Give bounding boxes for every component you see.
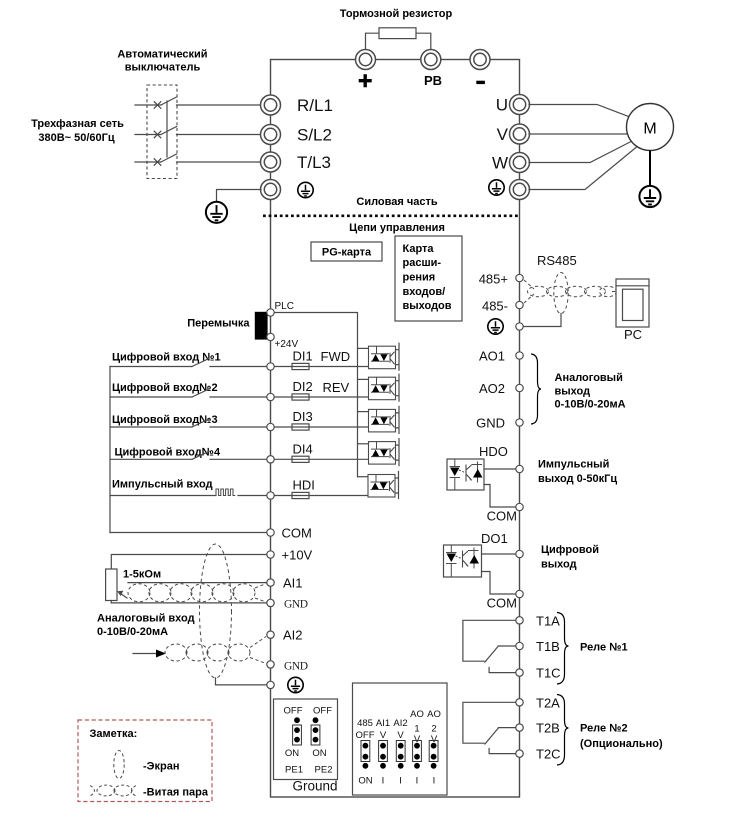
svg-text:PE1: PE1 (285, 765, 303, 776)
svg-text:-Экран: -Экран (143, 761, 179, 773)
DI2 switch wire (110, 396, 266, 398)
opto bus stub 2 (358, 378, 369, 380)
phase wire T (135, 161, 161, 163)
svg-text:W: W (492, 154, 508, 173)
terminal HDI (267, 492, 274, 499)
svg-text:485+: 485+ (479, 272, 508, 287)
opto5 output bracket (395, 472, 399, 499)
opto bus stub 5 (358, 476, 369, 478)
wire DO1 opto to COM (482, 572, 516, 595)
svg-text:OFF: OFF (284, 706, 303, 717)
shield ellipse RS485 (554, 273, 568, 314)
terminal DI2 (267, 393, 274, 400)
svg-text:485-: 485- (482, 299, 508, 314)
wire DI1 to opto1 (275, 366, 369, 368)
brace AO (531, 354, 541, 424)
terminal U (510, 95, 530, 115)
shield drain wire (216, 678, 267, 685)
terminal PB (421, 50, 441, 70)
svg-text:-Витая пара: -Витая пара (143, 787, 209, 799)
note legend box (78, 720, 212, 802)
twisted pair AI2 (165, 637, 266, 664)
svg-text:Тормозной резистор: Тормозной резистор (340, 8, 453, 20)
svg-text:COM: COM (487, 596, 517, 611)
svg-text:PB: PB (424, 73, 442, 88)
relay2 blade (485, 728, 499, 744)
svg-text:DO1: DO1 (481, 531, 508, 546)
opto bus stub 4 (358, 443, 369, 445)
optocoupler HDO (447, 459, 484, 490)
dotted separator (263, 214, 519, 217)
svg-text:PLC: PLC (275, 301, 294, 312)
PE symbol inside box right (489, 180, 504, 195)
svg-text:I: I (416, 776, 419, 787)
svg-text:M: M (643, 121, 656, 138)
terminal AO1 (516, 352, 523, 359)
svg-text:REV: REV (323, 380, 350, 395)
wire potentiometer bottom to GND (110, 601, 112, 603)
svg-text:485: 485 (357, 718, 373, 729)
svg-text:I: I (382, 776, 385, 787)
relay2 common wire (498, 727, 515, 729)
svg-text:Карта: Карта (403, 243, 435, 255)
resistor brake (379, 28, 416, 39)
svg-text:Силовая часть: Силовая часть (356, 196, 437, 208)
svg-text:U: U (496, 96, 508, 115)
wire PLC to opto bus (275, 313, 358, 477)
wire HDO opto to COM (484, 485, 515, 508)
HDI wire with pulse train (110, 495, 266, 497)
optocoupler DI4 (369, 442, 396, 465)
wire V to motor (529, 133, 627, 135)
DI1 switch blade (192, 359, 209, 367)
resistor HDI (292, 492, 309, 498)
breaker contact x R (154, 102, 161, 109)
svg-text:T1C: T1C (536, 666, 561, 681)
PE symbol 485 (488, 319, 503, 334)
svg-text:рения: рения (403, 272, 436, 284)
terminal DI4 (267, 456, 274, 463)
dip switch 485 (361, 741, 370, 769)
svg-text:AI1: AI1 (283, 576, 303, 591)
dip switch AO2 (429, 741, 438, 769)
resistor DI2 (292, 394, 309, 400)
PE symbol control (288, 677, 303, 692)
terminal PE control (267, 681, 274, 688)
wire DI4 to opto4 (275, 458, 369, 460)
breaker blade R (161, 97, 177, 105)
svg-text:HDI: HDI (293, 478, 315, 493)
svg-text:DI2: DI2 (293, 379, 313, 394)
svg-text:ON: ON (358, 776, 372, 787)
motor M (627, 104, 674, 151)
relay1 NO path (463, 620, 515, 661)
svg-text:Цифровой вход №1: Цифровой вход №1 (112, 352, 221, 364)
svg-text:T2A: T2A (536, 696, 560, 711)
svg-text:PC: PC (624, 327, 642, 342)
wire DI2 to opto2 (275, 396, 369, 398)
terminal +10V (267, 551, 274, 558)
opto1 output bracket (396, 343, 400, 370)
ground dip box (274, 699, 338, 780)
optocoupler HDI (368, 475, 395, 498)
svg-text:AO: AO (427, 709, 441, 720)
brace relay1 (557, 613, 569, 685)
DI2 switch blade (192, 389, 209, 397)
svg-text:V: V (380, 730, 387, 741)
twisted pair RS485 (524, 280, 617, 303)
jumper black bar (255, 312, 268, 340)
svg-text:ON: ON (312, 748, 326, 759)
svg-text:Трехфазная сеть: Трехфазная сеть (31, 118, 124, 130)
svg-text:выход: выход (555, 386, 591, 398)
terminal T1A (516, 617, 523, 624)
wire DI3 to opto3 (275, 426, 369, 428)
svg-text:AO1: AO1 (479, 349, 505, 364)
breaker contact x S (154, 131, 161, 138)
terminal COM do1 (516, 590, 523, 597)
relay1 common wire (498, 645, 515, 647)
opto4 output bracket (396, 439, 400, 466)
dip switch AO1 (413, 741, 422, 769)
breaker blade T (161, 154, 177, 162)
svg-text:Перемычка: Перемычка (187, 318, 250, 330)
terminal S/L2 (261, 125, 281, 145)
DI3 switch wire (110, 426, 266, 428)
svg-text:Цепи управления: Цепи управления (349, 222, 445, 234)
ground electrode left (206, 202, 227, 223)
svg-text:S/L2: S/L2 (297, 126, 332, 145)
phase wire S (135, 134, 161, 136)
terminal DI1 (267, 363, 274, 370)
terminal DO1 (516, 550, 523, 557)
svg-text:1-5кОм: 1-5кОм (123, 569, 161, 581)
svg-text:Цифровой вход№3: Цифровой вход№3 (112, 414, 218, 426)
AI2 source arrow (133, 653, 156, 655)
svg-text:OFF: OFF (313, 706, 332, 717)
resistor DI4 (292, 456, 309, 462)
svg-text:0-10В/0-20мА: 0-10В/0-20мА (555, 399, 626, 411)
motor ground wire (649, 151, 651, 187)
breaker dashed box (147, 85, 177, 179)
terminal +24V (267, 333, 274, 340)
svg-text:PG-карта: PG-карта (322, 247, 372, 259)
wire HDI to opto5 (275, 495, 369, 497)
PG card box (311, 242, 382, 261)
svg-text:V: V (397, 730, 404, 741)
dip switch AI1 (379, 741, 388, 769)
svg-text:2: 2 (431, 724, 436, 735)
svg-text:DI4: DI4 (293, 441, 313, 456)
svg-text:ON: ON (285, 748, 299, 759)
svg-text:Заметка:: Заметка: (90, 728, 138, 740)
relay1 NC wire (489, 668, 515, 673)
svg-text:COM: COM (282, 526, 312, 541)
DI1 switch wire (110, 366, 266, 368)
terminal HDO (516, 465, 523, 472)
svg-text:0-10В/0-20мА: 0-10В/0-20мА (97, 626, 168, 638)
svg-text:Аналоговый: Аналоговый (555, 372, 623, 384)
terminal W (510, 153, 530, 173)
terminal T1B (516, 642, 523, 649)
svg-text:(Опционально): (Опционально) (580, 738, 663, 750)
svg-text:AI1: AI1 (376, 718, 390, 729)
wire + terminal to resistor (366, 33, 380, 50)
phase wire R (135, 104, 161, 106)
svg-text:380В~ 50/60Гц: 380В~ 50/60Гц (38, 132, 115, 144)
svg-text:Аналоговый вход: Аналоговый вход (97, 613, 195, 625)
svg-text:AI2: AI2 (283, 628, 303, 643)
DI4 switch wire (110, 458, 266, 460)
svg-text:T2C: T2C (536, 747, 561, 762)
terminal R/L1 (261, 95, 281, 115)
opto3 output bracket (396, 406, 400, 433)
svg-text:I: I (399, 776, 402, 787)
dip switch PE1 (293, 717, 302, 745)
terminal COM hdo (516, 503, 523, 510)
pulse train symbol (216, 489, 235, 496)
terminal minus (470, 50, 490, 70)
svg-text:T1A: T1A (536, 614, 560, 629)
label minus (476, 81, 485, 84)
svg-text:R/L1: R/L1 (297, 96, 333, 115)
svg-text:AI2: AI2 (393, 718, 407, 729)
svg-text:RS485: RS485 (537, 253, 577, 268)
terminal PLC (267, 309, 274, 316)
terminal GND AO (516, 419, 523, 426)
svg-text:T/L3: T/L3 (297, 153, 331, 172)
svg-text:HDO: HDO (479, 444, 508, 459)
dip switch AI2 (396, 741, 405, 769)
wire resistor to PB terminal (416, 33, 431, 50)
svg-text:Реле №1: Реле №1 (580, 642, 628, 654)
optocoupler DI1 (369, 346, 396, 369)
svg-text:OFF: OFF (356, 730, 375, 741)
svg-text:GND: GND (284, 661, 308, 673)
terminal GND2 (267, 661, 274, 668)
terminal AI2 (267, 631, 274, 638)
svg-text:Ground: Ground (292, 779, 337, 794)
svg-text:Цифровой: Цифровой (541, 544, 599, 556)
terminal 485- (516, 301, 523, 308)
wire +10V to potentiometer (111, 555, 266, 570)
resistor DI1 (292, 363, 309, 369)
relay2 NO path (463, 702, 515, 743)
svg-text:I: I (433, 776, 436, 787)
svg-text:расши-: расши- (403, 257, 442, 269)
relay2 NC wire (489, 749, 515, 754)
terminal T/L3 (261, 152, 281, 172)
wire W to motor (529, 142, 631, 163)
shield ellipse analog (200, 544, 232, 678)
wire U to motor (529, 105, 629, 117)
wire GND1 (111, 602, 266, 604)
optocoupler DI2 (369, 377, 396, 400)
twisted pair legend icon (90, 785, 136, 796)
terminal AI1 (267, 579, 274, 586)
wire PE to motor (529, 147, 637, 190)
svg-text:выход 0-50кГц: выход 0-50кГц (538, 473, 617, 485)
svg-text:1: 1 (414, 724, 419, 735)
dip switch PE2 (311, 717, 320, 745)
breaker blade S (161, 127, 177, 135)
terminal PE left (261, 180, 281, 200)
svg-text:Реле №2: Реле №2 (580, 723, 628, 735)
svg-text:+10V: +10V (282, 548, 313, 563)
resistor DI3 (292, 424, 309, 430)
svg-text:FWD: FWD (321, 349, 351, 364)
potentiometer wiper arrow (121, 594, 128, 599)
PE symbol inside box left (298, 182, 313, 197)
terminal 485+ (516, 274, 523, 281)
svg-text:COM: COM (487, 509, 517, 524)
svg-text:GND: GND (284, 599, 308, 611)
svg-text:Импульсный вход: Импульсный вход (112, 479, 213, 491)
wire PE to ground (217, 190, 262, 202)
breaker contact x T (154, 159, 161, 166)
terminal + (356, 50, 376, 70)
svg-text:выходов: выходов (403, 300, 452, 312)
terminal GND1 (267, 599, 274, 606)
DI4 switch blade (192, 451, 209, 459)
relay1 blade (485, 646, 499, 662)
wire COM from bus (110, 532, 266, 534)
svg-text:Импульсный: Импульсный (538, 459, 609, 471)
terminal T2B (516, 724, 523, 731)
opto bus stub 1 (358, 347, 369, 349)
svg-text:AO2: AO2 (479, 381, 505, 396)
svg-text:PE2: PE2 (315, 765, 333, 776)
wire DO1 opto to terminal (482, 553, 516, 555)
wire AI1 (128, 582, 266, 584)
wire HDO opto to terminal (484, 468, 515, 470)
opto2 output bracket (396, 374, 400, 401)
shield legend icon (114, 751, 124, 779)
terminal AO2 (516, 384, 523, 391)
svg-text:V: V (497, 125, 509, 144)
shield drain 485 (524, 314, 561, 327)
svg-text:входов/: входов/ (403, 286, 446, 298)
label + (359, 74, 372, 87)
inverter main box (271, 60, 520, 798)
svg-text:AO: AO (410, 709, 424, 720)
terminal PE 485 (516, 323, 523, 330)
brace relay2 (557, 695, 569, 766)
digital input switch bus (109, 367, 111, 533)
terminal COM (267, 529, 274, 536)
ground electrode motor (639, 186, 660, 207)
svg-text:T1B: T1B (536, 639, 560, 654)
terminal V (510, 124, 530, 144)
optocoupler DO1 (444, 545, 482, 577)
potentiometer 1-5kOhm (106, 569, 117, 601)
terminal T1C (516, 669, 523, 676)
svg-text:GND: GND (476, 416, 505, 431)
PC box (616, 279, 649, 327)
optocoupler DI3 (369, 409, 396, 432)
svg-text:Цифровой вход№4: Цифровой вход№4 (115, 447, 221, 459)
terminal DI3 (267, 423, 274, 430)
terminal T2A (516, 699, 523, 706)
svg-text:T2B: T2B (536, 721, 560, 736)
expansion card box (395, 236, 462, 321)
svg-text:DI3: DI3 (293, 409, 313, 424)
svg-text:Автоматический: Автоматический (117, 49, 207, 61)
svg-text:выключатель: выключатель (125, 62, 201, 74)
svg-text:DI1: DI1 (293, 349, 313, 364)
opto bus stub 3 (358, 411, 369, 413)
terminal T2C (516, 750, 523, 757)
terminal PE right (510, 180, 530, 200)
breaker mechanical link (166, 101, 168, 157)
analog dip box (353, 683, 448, 795)
DI3 switch blade (192, 419, 209, 427)
twisted pair AI1 (128, 584, 266, 602)
svg-text:выход: выход (541, 559, 577, 571)
